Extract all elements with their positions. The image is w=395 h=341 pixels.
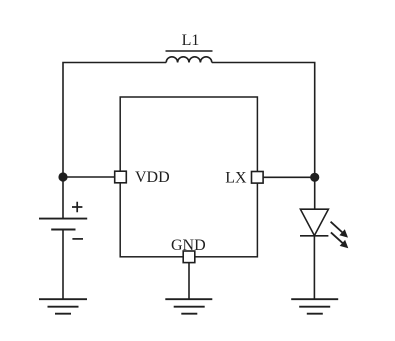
node B junction dot <box>310 173 319 182</box>
pin LX square <box>252 172 264 184</box>
svg-text:GND: GND <box>171 237 206 254</box>
wire battery to ground <box>62 230 64 300</box>
inductor L1 core bar <box>166 50 213 52</box>
LED emission arrow 1 head <box>339 229 348 237</box>
battery minus sign <box>72 238 83 240</box>
battery BT1 negative plate <box>51 229 75 231</box>
svg-text:LX: LX <box>225 170 247 187</box>
wire top-right segment <box>212 63 315 210</box>
battery BT1 positive plate <box>39 218 87 220</box>
wire LX to node B <box>263 176 315 178</box>
svg-text:VDD: VDD <box>135 169 170 186</box>
ground under LED <box>291 299 338 314</box>
node A junction dot <box>58 172 67 181</box>
LED emission arrow 1 shaft <box>331 222 343 233</box>
ground under battery <box>39 299 87 314</box>
wire GND pin down <box>188 263 190 300</box>
LED emission arrow 2 shaft <box>331 232 343 243</box>
pin GND square <box>183 251 195 263</box>
LED D1 triangle <box>300 209 328 235</box>
LED D1 cathode bar <box>300 235 328 237</box>
wire LED to ground <box>313 236 315 299</box>
battery plus sign <box>72 202 82 212</box>
ground under GND pin <box>165 299 212 314</box>
wire node A to VDD <box>63 176 115 178</box>
inductor L1 <box>166 57 212 63</box>
wire top-left segment <box>63 63 166 219</box>
svg-text:L1: L1 <box>182 32 200 49</box>
pin VDD square <box>115 171 127 183</box>
IC U1 body <box>120 97 257 257</box>
LED emission arrow 2 head <box>340 240 349 248</box>
